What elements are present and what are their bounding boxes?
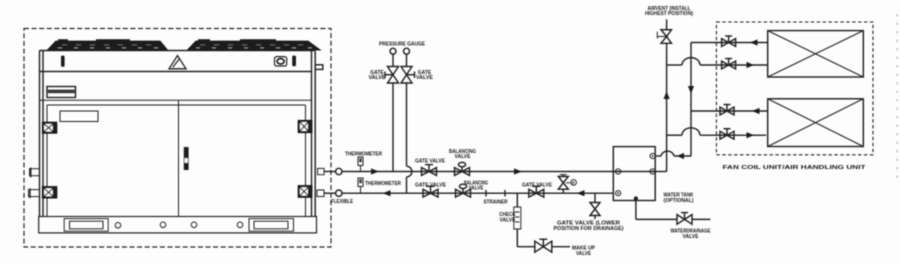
forklift slot right (249, 219, 294, 232)
pipe: FCU2 supply branch (with crossover) (667, 128, 767, 135)
balancing valve on supply header (455, 162, 470, 175)
gate valve FCU2 return (720, 105, 734, 115)
pressure gauge (return) (404, 48, 410, 54)
gate valve FCU2 supply (720, 129, 734, 139)
check valve on make-up line (514, 207, 521, 229)
svg-text:POSITION FOR DRAINAGE): POSITION FOR DRAINAGE) (554, 226, 624, 232)
svg-text:VALVE: VALVE (576, 251, 592, 257)
pipe: FCU1 return branch (691, 42, 768, 44)
hinge right upper (299, 121, 312, 132)
supply water outlet flange (318, 168, 336, 174)
svg-text:VALVE: VALVE (455, 154, 472, 160)
svg-text:GATE VALVE: GATE VALVE (415, 182, 447, 188)
air vent (install highest position) (657, 19, 671, 43)
control box (47, 87, 76, 98)
door handle (184, 147, 189, 170)
flow arrow return (near thermometer) (383, 190, 391, 196)
svg-text:PRESSURE GAUGE: PRESSURE GAUGE (379, 42, 426, 48)
svg-text:HIGHEST POSITION): HIGHEST POSITION) (645, 11, 693, 17)
flow arrow supply riser (up) (664, 91, 670, 99)
gate valve on return header (423, 186, 438, 197)
door frame (47, 100, 306, 216)
brand logo plate (275, 57, 287, 66)
pipe: FCU1 supply branch (with crossover) (667, 58, 768, 65)
flow arrow supply (near thermometer) (371, 168, 379, 174)
pipe: supply riser (666, 43, 668, 171)
chiller cabinet outline (40, 51, 316, 217)
chiller base rail (39, 217, 317, 233)
hinge right lower (299, 186, 312, 197)
pipe: FCU2 return branch (691, 110, 768, 112)
forklift slot left (64, 219, 108, 232)
warning triangle decal (169, 56, 186, 69)
condenser fan deck 1 (48, 39, 167, 50)
gate valve on supply gauge branch (385, 67, 399, 84)
top panel seam (40, 71, 312, 73)
svg-text:GATE VALVE: GATE VALVE (415, 159, 446, 165)
gate valve on supply header (422, 165, 437, 176)
fan coil unit enclosure (dashed) (716, 22, 873, 155)
left refrigerant stub upper (30, 168, 40, 178)
svg-text:P: P (572, 181, 575, 186)
gate valve FCU1 return (722, 36, 736, 46)
tank port right return-in (650, 153, 655, 158)
flow arrow return (mid) (577, 190, 585, 196)
return water inlet flange (317, 190, 336, 197)
pressure gauge (supply) (390, 48, 396, 54)
tank port left return (616, 191, 621, 196)
fan coil unit 2 (768, 99, 864, 147)
vent valve with pressure tap on return (558, 175, 576, 194)
svg-text:THERMOMETER: THERMOMETER (345, 152, 382, 158)
gate valve on return (second) (529, 186, 544, 197)
water tank (optional) (613, 147, 655, 201)
make-up valve (535, 239, 552, 252)
flow arrow into tank (left) (677, 153, 684, 159)
latch mark left on top strip (61, 56, 65, 67)
svg-text:VALVE: VALVE (500, 217, 517, 223)
tank port left supply (616, 169, 621, 174)
strainer union tick 1 (485, 190, 487, 196)
base holes (115, 222, 243, 228)
svg-text:VALVE: VALVE (369, 75, 387, 81)
node: tank drain connection (634, 196, 638, 200)
flexible connector (return) (336, 190, 342, 196)
svg-text:VALVE: VALVE (683, 234, 700, 240)
balancing valve on return header (456, 184, 471, 197)
left refrigerant stub lower (29, 188, 40, 198)
svg-text:VALVE: VALVE (416, 75, 434, 81)
svg-text:VALVE: VALVE (469, 186, 485, 192)
pipe: make-up water line (517, 229, 570, 247)
svg-text:THERMOMETER: THERMOMETER (365, 181, 401, 187)
tank port right supply-out (650, 169, 655, 174)
flow arrow FCU2 supply (right) (747, 132, 755, 138)
pipe: return riser to tank (with crossover) (655, 151, 691, 156)
svg-text:FLEXIBLE: FLEXIBLE (331, 199, 354, 205)
svg-text:FAN COIL UNIT/AIR HANDLING UNI: FAN COIL UNIT/AIR HANDLING UNIT (723, 165, 867, 171)
pipe: chilled water return header (342, 192, 613, 194)
svg-text:STRAINER: STRAINER (484, 199, 508, 205)
water drainage valve (677, 213, 692, 225)
pipe: pressure gauge branch (supply side) (392, 55, 394, 172)
condenser fan deck 2 (188, 39, 320, 50)
svg-text:(OPTIONAL): (OPTIONAL) (664, 198, 694, 204)
node: make-up tee on return header (516, 193, 518, 207)
thermometer (supply) (358, 157, 363, 172)
thermometer (return) (358, 178, 363, 193)
scan artifact streak at right margin (896, 14, 898, 178)
right side tab (315, 65, 323, 70)
strainer union tick 2 (504, 190, 506, 196)
flow arrow FCU2 return (left) (752, 108, 760, 114)
pipe: chilled water supply header (342, 171, 667, 173)
latch mark right on top strip (292, 56, 296, 67)
pipe: return riser (690, 43, 692, 157)
gate valve FCU1 supply (722, 59, 736, 69)
hinge left lower (43, 187, 56, 197)
air-cooled chiller unit enclosure (dashed) (24, 29, 331, 248)
nameplate label (60, 111, 98, 122)
flow arrow return riser (down) (688, 86, 694, 94)
pipe: pressure gauge branch (return side, crossing over supply) (407, 55, 412, 194)
hinge left upper (43, 123, 56, 133)
flow arrow FCU1 supply (right) (747, 62, 755, 68)
mid panel seam (40, 99, 312, 101)
pipe: tank drain line (636, 199, 711, 220)
flow arrow supply (mid) (514, 168, 522, 174)
drain gate valve (lower position for drainage) (590, 193, 600, 219)
flow arrow FCU1 return (left) (750, 39, 758, 45)
gate valve on return gauge branch (401, 67, 415, 84)
flexible connector (supply) (336, 168, 342, 174)
fan coil unit 1 (768, 31, 864, 77)
svg-text:GATE VALVE: GATE VALVE (522, 182, 553, 188)
